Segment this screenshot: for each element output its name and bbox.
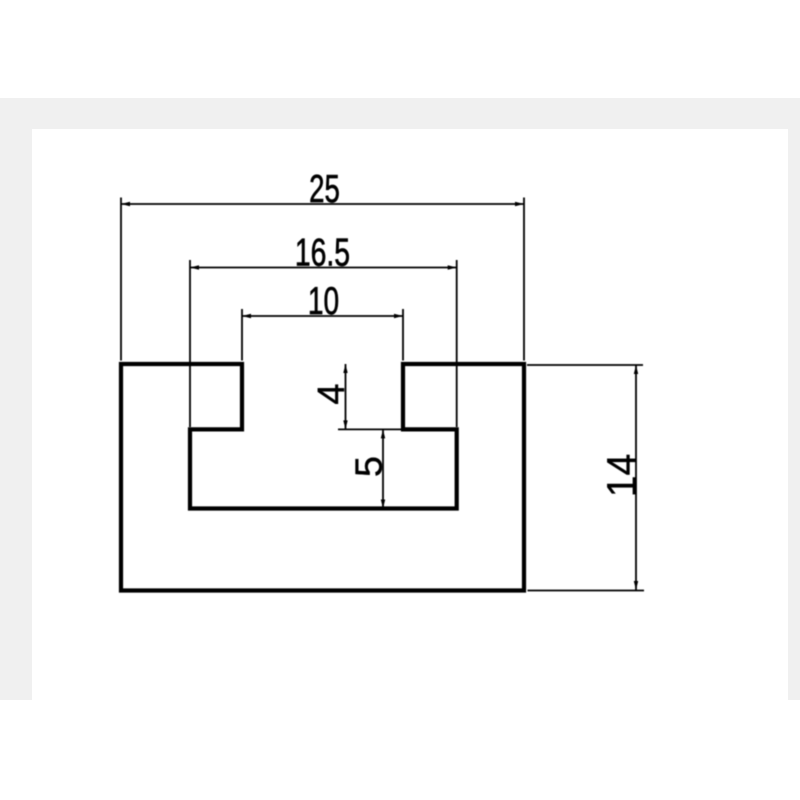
extension line left of dim 25 — [120, 198, 122, 361]
dimension line 14 — [634, 365, 638, 590]
extension line right of dim 16.5 — [456, 260, 458, 427]
svg-text:10: 10 — [308, 280, 339, 324]
extension line at slot step for dims 4 and 5 — [338, 428, 402, 430]
extension line top of dim 14 — [527, 364, 643, 366]
svg-text:25: 25 — [309, 167, 340, 211]
extension line bottom of dim 14 — [528, 590, 645, 592]
white drawing sheet — [32, 129, 788, 700]
profile outline (T-slot cross-section) — [121, 364, 524, 591]
extension line right of dim 25 — [523, 198, 525, 361]
dimension line 4 — [343, 364, 347, 429]
svg-text:14: 14 — [598, 454, 646, 497]
svg-text:4: 4 — [311, 383, 353, 404]
svg-text:5: 5 — [349, 456, 391, 477]
dimension line 25 — [121, 202, 524, 206]
svg-text:16.5: 16.5 — [295, 231, 350, 274]
dimension line 5 — [381, 429, 385, 508]
extension line right of dim 10 — [402, 309, 404, 361]
gray page background band — [0, 98, 800, 700]
dimension line 16.5 — [190, 265, 457, 269]
dimension line 10 — [242, 314, 403, 318]
extension line left of dim 16.5 — [189, 260, 191, 427]
extension line left of dim 10 — [241, 309, 243, 361]
